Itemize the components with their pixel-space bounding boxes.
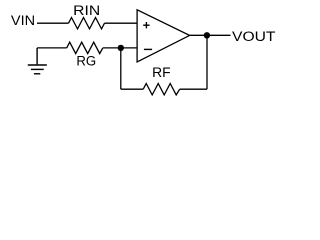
node A junction dot <box>118 45 124 51</box>
ground <box>28 48 47 74</box>
resistor RF <box>143 84 180 95</box>
wire feedback up to output <box>206 35 208 89</box>
op-amp - marking <box>144 48 152 50</box>
wire RG to op-amp - input <box>103 47 137 49</box>
resistor RG <box>67 42 103 53</box>
wire feedback bottom right <box>180 88 207 90</box>
op-amp + marking <box>143 22 149 28</box>
svg-text:VIN: VIN <box>11 13 35 28</box>
svg-text:VOUT: VOUT <box>232 29 276 44</box>
svg-text:RG: RG <box>76 53 96 68</box>
wire feedback bottom left <box>121 88 143 90</box>
wire VIN to RIN <box>37 22 69 24</box>
svg-text:RIN: RIN <box>73 3 100 18</box>
wire op-amp output to VOUT <box>190 34 231 36</box>
wire ground to RG <box>37 47 67 49</box>
wire RIN to op-amp + input <box>105 22 138 24</box>
wire junction down to feedback <box>120 48 122 89</box>
resistor RIN <box>69 18 105 29</box>
svg-text:RF: RF <box>152 65 171 80</box>
op-amp U1 <box>137 10 190 62</box>
node output junction dot <box>204 32 210 38</box>
